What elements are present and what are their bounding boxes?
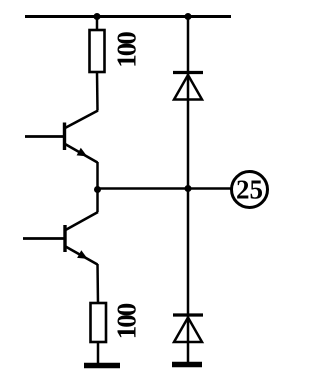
- wire diode column lower (middle to bottom): [187, 189, 190, 363]
- wire R2 bottom to ground bar: [97, 342, 100, 364]
- node junction dot at top rail / D1: [185, 13, 192, 20]
- node terminal 25: [232, 172, 268, 208]
- wire junction to Q2 collector: [96, 190, 99, 213]
- wire Q2 emitter down to R2: [96, 264, 99, 304]
- transistor Q2: [65, 212, 98, 265]
- node junction dot Q1/Q2/output: [94, 186, 101, 193]
- transistor Q1: [65, 111, 99, 163]
- wire diode column upper (rail to middle): [187, 17, 190, 189]
- diode D1: [173, 73, 203, 100]
- node junction dot middle wire / diode column: [185, 185, 192, 192]
- ground terminal bar (left): [84, 363, 120, 369]
- svg-text:100: 100: [112, 32, 142, 68]
- wire middle output: [98, 187, 232, 190]
- resistor R2: [91, 303, 107, 342]
- wire Q1 base lead: [25, 135, 65, 138]
- svg-text:100: 100: [112, 303, 142, 339]
- wire rail to R1 top: [96, 17, 99, 32]
- ground terminal bar (right): [172, 362, 202, 368]
- wire R1 bottom to Q1 collector: [96, 72, 99, 111]
- diode D2: [173, 315, 203, 342]
- node junction dot at top rail / R1: [94, 13, 101, 20]
- wire top supply rail: [25, 15, 231, 18]
- svg-text:25: 25: [236, 175, 263, 205]
- resistor R1: [90, 30, 105, 72]
- wire Q1 emitter down to junction: [96, 162, 99, 190]
- wire Q2 base lead: [23, 237, 65, 240]
